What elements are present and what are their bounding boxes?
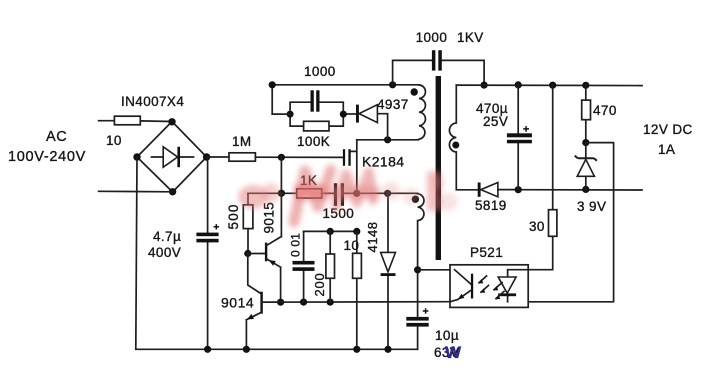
svg-text:400V: 400V	[148, 245, 181, 260]
wire 9015 base down to 9014 collector	[248, 254, 261, 294]
svg-text:4.7µ: 4.7µ	[153, 229, 181, 244]
svg-text:1M: 1M	[232, 134, 252, 149]
node 470u top junction	[515, 81, 522, 88]
node bridge bottom vertex	[169, 188, 176, 195]
node 470u bottom junction	[515, 186, 522, 193]
svg-text:1000: 1000	[416, 30, 448, 45]
wire bridge left vertex to bottom rail	[136, 157, 137, 349]
capacitor 470u 25V	[476, 85, 532, 190]
svg-text:4148: 4148	[365, 222, 380, 253]
resistor 1M	[229, 134, 255, 161]
wire feedback to opto input	[418, 269, 450, 271]
transformer primary winding	[418, 85, 425, 140]
svg-text:10: 10	[344, 238, 360, 253]
node 200 bottom junction	[327, 299, 334, 306]
resistor 500	[226, 193, 253, 253]
svg-text:100K: 100K	[297, 134, 330, 149]
node gate line junction	[278, 154, 285, 161]
wire drive line 500-top corner to 1K	[248, 192, 297, 194]
node 30 column top junction	[549, 82, 556, 89]
capacitor 4.7u 400V	[148, 157, 219, 349]
node source column drive junction	[353, 190, 360, 197]
wire 1M to gate	[255, 156, 343, 158]
transformer feedback winding	[418, 194, 424, 317]
svg-text:100V-240V: 100V-240V	[8, 149, 86, 165]
wire 0V rail	[518, 189, 642, 191]
wire snubber to top rail	[272, 85, 290, 114]
wire top rail secondary	[456, 84, 642, 87]
resistor 470	[582, 85, 617, 142]
transistor 9015	[248, 193, 282, 302]
svg-text:9014: 9014	[221, 295, 254, 311]
svg-text:10: 10	[106, 133, 122, 148]
svg-text:9015: 9015	[262, 202, 277, 234]
transformer core	[436, 76, 441, 260]
node 4148 top junction	[384, 190, 391, 197]
wire AC line top	[99, 120, 172, 123]
diode 4937	[343, 97, 408, 140]
capacitor 0.01	[289, 231, 315, 302]
optocoupler P521	[450, 245, 528, 307]
node primary polarity dot	[411, 88, 418, 95]
svg-text:AC: AC	[46, 129, 67, 145]
resistor 200	[312, 231, 335, 302]
svg-text:30: 30	[529, 219, 545, 234]
svg-text:12V DC: 12V DC	[643, 122, 693, 137]
node zener anode junction	[582, 186, 589, 193]
wire AC line bottom	[99, 190, 173, 193]
node 4148 bottom rail junction	[384, 346, 391, 353]
wire bottom rail	[136, 348, 418, 350]
node 9015 base junction	[244, 250, 251, 257]
node source resistor bottom rail junction	[353, 346, 360, 353]
svg-text:IN4007X4: IN4007X4	[121, 94, 184, 109]
resistor 10 (AC input)	[106, 116, 140, 148]
node snubber diode junction	[384, 136, 391, 143]
node 9014 emitter bottom rail junction	[243, 346, 250, 353]
snubber parallel RC network	[290, 64, 343, 149]
bridge rectifier IN4007X4	[121, 94, 207, 192]
node 200 top junction	[327, 228, 334, 235]
MOSFET K2184	[343, 140, 405, 194]
svg-text:1A: 1A	[658, 142, 675, 157]
capacitor 1000 1KV	[393, 30, 485, 85]
wire sense line 9014 base to opto	[262, 301, 450, 304]
watermark pink overlay	[238, 170, 458, 222]
wire mid rail 0.01 to source column	[304, 230, 357, 232]
svg-text:P521: P521	[470, 245, 503, 260]
node 470 top junction	[582, 82, 589, 89]
watermark blue W	[445, 343, 462, 362]
resistor 1K	[297, 173, 322, 198]
svg-text:25V: 25V	[483, 114, 508, 129]
label AC 100V-240V	[8, 129, 86, 165]
svg-text:10µ: 10µ	[435, 328, 459, 343]
node 9015 emitter to 9014 base junction	[277, 299, 284, 306]
label 12V DC output	[643, 122, 693, 157]
svg-text:0 01: 0 01	[289, 233, 303, 257]
svg-text:200: 200	[312, 272, 327, 296]
node secondary polarity dot	[452, 142, 459, 149]
svg-text:500: 500	[226, 203, 241, 229]
node 470 bottom junction	[582, 139, 589, 146]
svg-text:W: W	[445, 343, 462, 362]
node 1KV cap left junction	[389, 81, 396, 88]
wire gate junction down to drive line	[280, 157, 282, 193]
node 4.7u bottom rail junction	[204, 346, 211, 353]
wire drive line to feedback winding	[357, 192, 418, 194]
node top rail left	[269, 81, 276, 88]
node 0.01 bottom junction	[300, 299, 307, 306]
wire DC+ bridge to 1M	[207, 156, 229, 158]
node drive line junction	[278, 190, 285, 197]
node bridge top vertex	[168, 118, 175, 125]
svg-text:1000: 1000	[304, 64, 336, 79]
node snubber right	[340, 111, 347, 118]
transformer secondary winding	[449, 85, 477, 190]
node bridge right vertex	[203, 153, 210, 160]
node feedback polarity dot	[412, 196, 419, 203]
node source column mid junction	[353, 228, 360, 235]
svg-text:5819: 5819	[475, 198, 507, 213]
node snubber left	[287, 111, 294, 118]
resistor 10 (source)	[344, 231, 362, 349]
resistor 30	[528, 85, 557, 270]
transistor 9014	[221, 292, 281, 350]
zener diode 3.9V	[575, 143, 607, 214]
wire top rail primary	[272, 84, 419, 86]
diode 5819	[475, 183, 518, 214]
node feedback opto branch junction	[414, 266, 421, 273]
node bridge left vertex	[133, 153, 140, 160]
svg-text:3 9V: 3 9V	[577, 199, 606, 214]
wire opto LED return	[528, 143, 613, 302]
capacitor 10u 63V	[406, 308, 459, 360]
wire drain line	[357, 139, 419, 141]
svg-text:4937: 4937	[377, 97, 409, 112]
capacitor 1500	[322, 183, 357, 221]
svg-text:1KV: 1KV	[457, 30, 484, 45]
svg-text:470: 470	[593, 103, 617, 118]
node 1KV cap right junction	[481, 82, 488, 89]
diode 4148	[365, 193, 396, 349]
